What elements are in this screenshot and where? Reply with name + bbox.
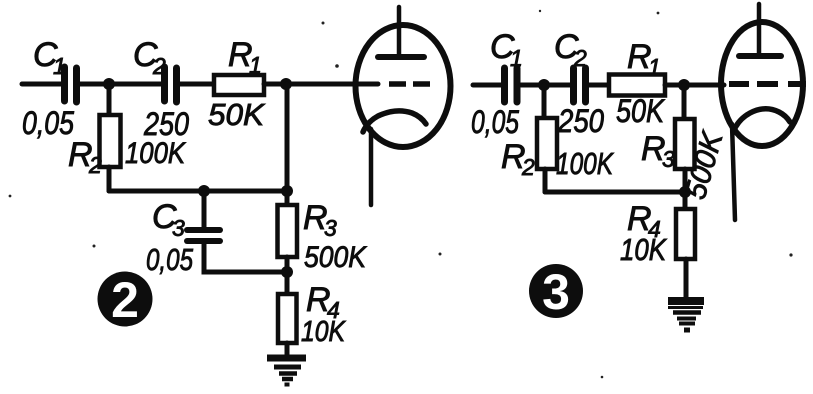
resistor R4'	[676, 209, 695, 259]
wire: node B down through node D to R3	[285, 84, 290, 206]
svg-text:10K: 10K	[301, 316, 346, 348]
node C (junction bottom rail / C3 tap)	[198, 185, 210, 197]
wire: input lead left	[22, 82, 61, 87]
wire: node A down to R2	[107, 84, 112, 116]
svg-text:1: 1	[510, 45, 523, 71]
svg-text:1: 1	[53, 53, 66, 79]
svg-text:0,05: 0,05	[146, 242, 194, 277]
triode V1 cathode lead	[369, 129, 374, 205]
capacitor C1'	[505, 68, 518, 102]
svg-text:3: 3	[542, 264, 570, 320]
node D (junction bottom rail / R3 branch)	[281, 185, 293, 197]
svg-text:10K: 10K	[620, 232, 667, 267]
triode V2 envelope	[721, 22, 803, 146]
capacitor C3	[187, 230, 220, 241]
triode V1 grid dashes	[389, 81, 430, 87]
resistor R2	[100, 115, 121, 167]
wire: R4 to ground	[285, 343, 290, 357]
resistor R1	[214, 75, 264, 95]
svg-text:2: 2	[88, 152, 102, 178]
ground (right)	[668, 301, 704, 330]
wire: C2 to R1	[180, 82, 214, 87]
wire: R4' to ground	[684, 259, 689, 298]
wire: R3' to node H to R4'	[683, 169, 688, 209]
svg-text:3: 3	[662, 146, 675, 172]
wire: bottom rail of right circuit	[545, 190, 685, 195]
figure number 3 (circled)	[529, 264, 583, 320]
resistor R3	[278, 205, 298, 257]
triode V2 cathode lead	[732, 124, 735, 220]
ground (left)	[267, 358, 306, 385]
wire: input lead left	[473, 83, 501, 88]
wire: node C down to C3	[202, 191, 207, 227]
triode V2 anode lead	[757, 4, 762, 56]
wire: C1 to node A	[80, 82, 110, 87]
node A (junction after C1)	[103, 78, 115, 90]
wire: C1' to node F	[521, 83, 540, 88]
wire: node A to C2	[109, 82, 161, 87]
svg-text:3: 3	[324, 215, 337, 241]
triode V2 cathode arc	[734, 109, 790, 130]
svg-text:100K: 100K	[125, 137, 187, 170]
resistor R2'	[537, 118, 557, 169]
resistor R1'	[609, 75, 665, 96]
node G (junction after R1')	[678, 79, 690, 91]
wire: node G to tube grid	[684, 83, 724, 88]
svg-text:2: 2	[152, 53, 166, 79]
svg-text:1: 1	[249, 52, 262, 78]
svg-text:3: 3	[172, 215, 185, 241]
wire: R1 to node B	[264, 82, 287, 87]
wire: R1' to node G	[665, 83, 686, 88]
triode V2 grid dashes	[729, 81, 806, 87]
svg-text:0,05: 0,05	[471, 104, 519, 140]
wire: R2 down to bottom rail	[107, 167, 112, 191]
figure number 2 (circled)	[98, 272, 153, 329]
triode V2 anode plate	[739, 53, 781, 59]
svg-text:2: 2	[111, 272, 139, 328]
capacitor C2'	[574, 68, 586, 102]
node B (junction after R1)	[280, 78, 292, 90]
resistor R3'	[675, 119, 695, 169]
svg-text:1: 1	[648, 54, 661, 80]
wire: C2' to R1'	[589, 83, 609, 88]
wire: R2' down to bottom rail	[543, 169, 548, 192]
wire: bottom rail of left circuit	[109, 189, 287, 194]
svg-text:250: 250	[557, 103, 604, 139]
svg-text:2: 2	[573, 45, 587, 71]
svg-text:0,05: 0,05	[22, 105, 74, 141]
capacitor C1	[65, 67, 77, 102]
svg-text:50K: 50K	[208, 97, 265, 132]
triode V1 anode plate	[378, 54, 424, 60]
wire: node F down to R2'	[542, 85, 547, 118]
svg-text:500K: 500K	[304, 241, 368, 274]
resistor R4	[278, 294, 297, 343]
wire: node G down to R3'	[682, 85, 687, 120]
triode V1 cathode arc	[363, 111, 426, 132]
node F (junction after C1')	[538, 79, 550, 91]
svg-text:50K: 50K	[616, 93, 665, 129]
svg-text:2: 2	[521, 154, 535, 180]
svg-text:100K: 100K	[556, 146, 614, 181]
triode V1 anode lead	[397, 7, 402, 57]
node E (junction R3/R4/C3)	[281, 266, 293, 278]
node H (junction bottom rail / R3'-R4')	[679, 186, 691, 198]
wire: C3 down then right to node E	[204, 244, 287, 272]
wire: node F to C2'	[544, 83, 570, 88]
triode V1 envelope	[356, 25, 451, 147]
wire: node B to tube grid	[286, 82, 378, 87]
wire: R3 to R4	[285, 257, 290, 294]
capacitor C2	[165, 67, 177, 102]
